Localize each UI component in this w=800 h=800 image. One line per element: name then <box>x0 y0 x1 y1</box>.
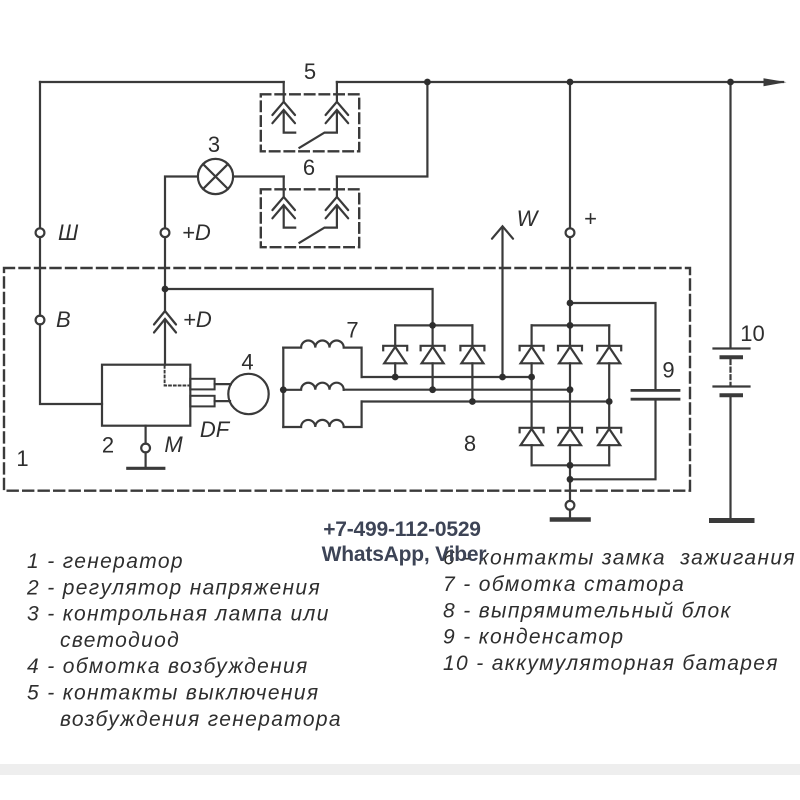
stator coil phase A <box>283 341 361 378</box>
svg-text:6: 6 <box>303 155 315 180</box>
svg-text:M: M <box>164 432 183 457</box>
bridge diode top center <box>558 346 582 364</box>
wire M lead lower <box>145 452 147 466</box>
svg-text:1 - генератор: 1 - генератор <box>27 550 184 573</box>
svg-text:Ш: Ш <box>58 220 79 245</box>
battery cell 2 long plate <box>714 385 750 387</box>
junction dot stator star <box>280 386 287 393</box>
wire pin upper to field winding <box>215 383 231 385</box>
svg-text:W: W <box>517 206 540 231</box>
wire capacitor bottom link <box>570 401 656 480</box>
contact 5 left chevrons <box>272 102 295 123</box>
field winding 4 <box>228 374 268 414</box>
wire lamp right to contact 6 <box>233 175 284 177</box>
diode trio D1 leads <box>394 325 396 377</box>
svg-text:B: B <box>56 307 71 332</box>
wire phase A <box>362 376 532 378</box>
svg-text:WhatsApp, Viber: WhatsApp, Viber <box>322 543 487 566</box>
svg-text:DF: DF <box>200 417 231 442</box>
svg-text:4: 4 <box>241 350 253 375</box>
bridge left column leads <box>530 325 532 465</box>
wire contact 6 to top rail <box>337 82 428 177</box>
diode trio D2 leads <box>432 325 434 389</box>
junction dot +D node <box>162 286 169 293</box>
wire battery drop <box>729 82 731 348</box>
contact 5 right foot and blade <box>300 112 337 148</box>
lamp cross <box>203 164 228 189</box>
bridge diode bottom right <box>597 428 621 445</box>
svg-text:5 - контакты выключения: 5 - контакты выключения <box>27 682 319 705</box>
svg-text:7 - обмотка статора: 7 - обмотка статора <box>443 573 685 596</box>
svg-text:+D: +D <box>183 307 212 332</box>
battery cell 1 long plate <box>714 347 750 349</box>
svg-text:8 - выпрямительный блок: 8 - выпрямительный блок <box>443 599 732 622</box>
stator star vertical <box>282 348 284 427</box>
diode trio D2 <box>421 346 445 364</box>
junction dot phase C bridge <box>606 398 613 405</box>
diode trio D1 <box>383 346 407 364</box>
wire +D vertical into box 1 <box>164 237 166 310</box>
svg-text:+: + <box>584 206 597 231</box>
junction dot phase B trio <box>429 386 436 393</box>
contact 5 right chevrons <box>326 102 349 123</box>
wire left vertical to terminal Sh <box>39 82 41 228</box>
wire + to bridge <box>569 237 571 346</box>
bridge diode bottom left <box>520 428 544 445</box>
bridge diode top left <box>520 346 544 364</box>
svg-text:возбуждения генератора: возбуждения генератора <box>60 708 342 731</box>
bridge right column leads <box>608 325 610 465</box>
svg-text:9: 9 <box>662 358 674 383</box>
junction dot capacitor top <box>567 300 574 307</box>
wire phase B <box>344 389 570 391</box>
regulator dotted link <box>165 366 190 386</box>
ground regulator M <box>128 467 164 470</box>
wire terminal to ground <box>569 510 571 517</box>
wire W to phase A <box>501 228 503 378</box>
stator coil phase C <box>283 402 361 428</box>
junction dot phase A bridge <box>528 374 535 381</box>
svg-text:2: 2 <box>102 433 114 458</box>
svg-text:+D: +D <box>182 220 211 245</box>
wire phase C <box>362 400 610 402</box>
chevron connector +D <box>154 311 176 333</box>
contact 6 left lead <box>283 177 285 197</box>
diode trio D3 leads <box>471 325 473 401</box>
wire B to regulator input <box>40 324 102 404</box>
junction dot phase A W tap <box>499 374 506 381</box>
svg-text:6 - контакты замка зажигания: 6 - контакты замка зажигания <box>443 547 796 570</box>
wire top rail left segment <box>40 81 284 83</box>
wire M lead upper <box>145 426 147 444</box>
svg-text:10: 10 <box>740 321 764 346</box>
wire capacitor top link <box>570 303 656 389</box>
terminal M <box>141 444 150 453</box>
junction dot bridge bottom center <box>567 462 574 469</box>
wire pin lower to field winding <box>215 400 230 402</box>
junction dot top rail at plus <box>567 79 574 86</box>
bridge center column leads <box>569 363 571 465</box>
bridge diode bottom center <box>558 428 582 445</box>
arrow W <box>492 226 513 238</box>
arrowhead top rail output <box>764 78 787 86</box>
terminal +D <box>161 228 170 237</box>
wire top rail right segment <box>337 81 783 83</box>
svg-text:4 - обмотка возбуждения: 4 - обмотка возбуждения <box>27 655 309 678</box>
diode trio rail <box>395 324 472 326</box>
svg-text:1: 1 <box>16 446 28 471</box>
svg-text:9 - конденсатор: 9 - конденсатор <box>443 626 624 649</box>
battery cell 2 short plate <box>722 393 742 397</box>
legend list left column <box>26 550 342 731</box>
svg-text:8: 8 <box>464 431 476 456</box>
junction dot top rail at battery <box>727 79 734 86</box>
svg-text:+7-499-112-0529: +7-499-112-0529 <box>323 518 481 541</box>
contact 6 box <box>261 189 359 247</box>
regulator pin upper <box>190 379 214 390</box>
diode trio D3 <box>460 346 484 364</box>
battery cell 1 short plate <box>722 355 742 359</box>
regulator box 2 <box>102 365 190 426</box>
wire lamp left to +D vertical <box>165 177 198 229</box>
battery dashed middle <box>729 360 731 385</box>
svg-text:10 - аккумуляторная батарея: 10 - аккумуляторная батарея <box>443 652 779 675</box>
watermark band bottom <box>0 764 800 775</box>
junction dot phase B bridge <box>567 386 574 393</box>
contact 6 right lead <box>336 177 338 197</box>
svg-text:светодиод: светодиод <box>60 629 180 652</box>
capacitor C9 top plate <box>632 389 679 392</box>
contact 5 right lead <box>336 82 338 101</box>
svg-text:7: 7 <box>346 318 358 343</box>
svg-text:2 - регулятор напряжения: 2 - регулятор напряжения <box>26 576 321 599</box>
junction dot phase C trio <box>469 398 476 405</box>
junction dot capacitor bottom <box>567 476 574 483</box>
contact 6 left foot <box>284 207 296 228</box>
wire bridge output down <box>569 465 571 501</box>
terminal B <box>36 316 45 325</box>
dashed box generator 1 <box>4 268 690 491</box>
contact 5 left foot <box>284 112 296 133</box>
terminal generator minus <box>566 501 575 510</box>
contact 6 right foot and blade <box>300 207 337 243</box>
ground generator <box>552 517 589 522</box>
junction dot phase A trio <box>392 374 399 381</box>
contact 5 box <box>261 94 359 151</box>
wire +D chevron lower segment <box>164 320 166 365</box>
terminal Sh <box>36 228 45 237</box>
contact 5 left lead <box>283 82 285 101</box>
bridge bottom rail <box>532 464 610 466</box>
stator coil phase B <box>283 383 343 390</box>
svg-text:3: 3 <box>208 132 220 157</box>
contact 6 left chevrons <box>272 197 295 218</box>
node + vertical upper <box>569 82 571 228</box>
contact 6 right chevrons <box>326 197 349 218</box>
wire battery to ground <box>729 397 731 517</box>
bridge diode top right <box>597 346 621 364</box>
svg-text:3 - контрольная лампа или: 3 - контрольная лампа или <box>27 603 330 626</box>
terminal + <box>566 228 575 237</box>
svg-text:5: 5 <box>304 59 316 84</box>
junction dot trio rail <box>429 322 436 329</box>
bridge top rail <box>532 324 610 326</box>
wire +D junction to diode trio <box>165 289 433 325</box>
legend list right column <box>443 547 796 676</box>
junction dot top rail at contact 6 <box>424 79 431 86</box>
wire Sh to B <box>39 237 41 316</box>
junction dot bridge rail center <box>567 322 574 329</box>
ground battery <box>712 518 753 523</box>
lamp HL 3 <box>198 159 233 194</box>
capacitor C9 bottom plate <box>632 398 679 401</box>
regulator pin lower <box>190 396 214 407</box>
